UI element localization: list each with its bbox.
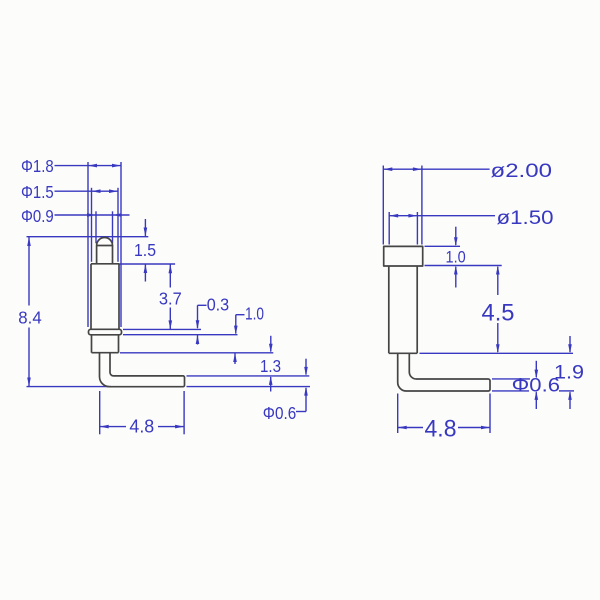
svg-text:8.4: 8.4	[18, 307, 42, 327]
svg-text:Φ0.6: Φ0.6	[263, 403, 297, 423]
svg-text:Φ1.8: Φ1.8	[21, 156, 54, 176]
svg-text:1.5: 1.5	[134, 240, 156, 260]
svg-text:1.0: 1.0	[446, 247, 466, 266]
svg-text:0.3: 0.3	[207, 294, 230, 314]
svg-text:4.8: 4.8	[425, 416, 457, 442]
svg-text:1.0: 1.0	[245, 303, 264, 323]
svg-text:Φ0.6: Φ0.6	[512, 375, 560, 397]
svg-text:4.8: 4.8	[129, 415, 154, 436]
svg-text:ø2.00: ø2.00	[491, 160, 553, 182]
svg-text:3.7: 3.7	[159, 289, 182, 309]
svg-text:4.5: 4.5	[482, 301, 515, 327]
svg-text:Φ1.5: Φ1.5	[21, 182, 54, 202]
svg-text:ø1.50: ø1.50	[497, 207, 554, 229]
svg-text:Φ0.9: Φ0.9	[21, 206, 54, 226]
svg-text:1.3: 1.3	[260, 356, 281, 376]
